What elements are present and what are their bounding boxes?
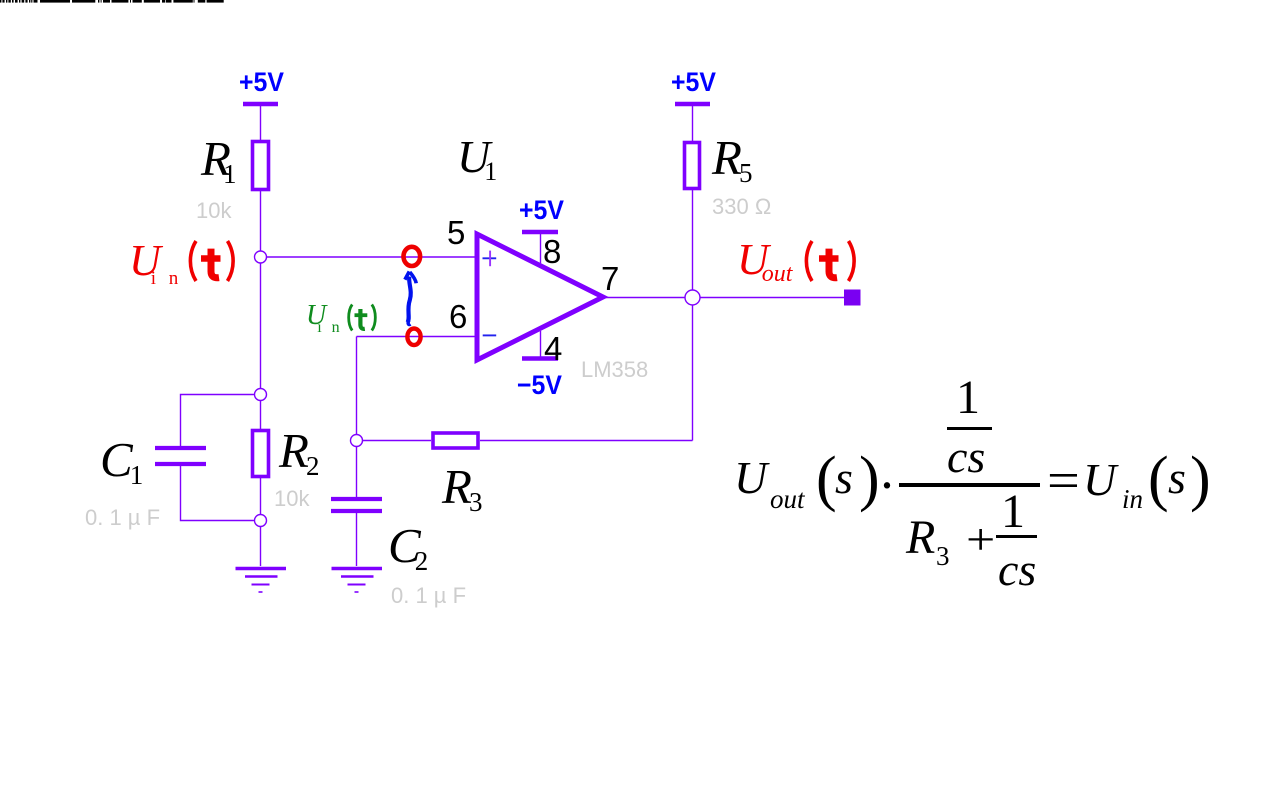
pin 5 — [447, 216, 465, 249]
value: 330 ohm (R5) — [712, 196, 771, 218]
label: R1 — [201, 134, 236, 183]
value: 0.1uF (C2) — [391, 585, 466, 607]
annotation: blue arrow between circles — [405, 272, 416, 325]
wire: pin 4 stub — [540, 331, 542, 358]
formula main fraction bar — [899, 483, 1040, 487]
resistor R3 (horizontal) — [433, 433, 478, 448]
wire: Uin node to op-amp + input — [261, 256, 478, 258]
formula equals — [1047, 456, 1080, 508]
node: feedback junction — [351, 435, 363, 447]
label: R3 — [442, 462, 482, 511]
+5V power bar at op-amp pin 8 — [522, 230, 558, 235]
resistor R5 — [685, 143, 700, 189]
+5V power bar above R5 — [675, 102, 710, 107]
output terminal square — [844, 290, 861, 306]
node: output junction — [685, 290, 700, 305]
value: LM358 — [581, 359, 648, 381]
label: Uin(t) red input — [129, 239, 182, 283]
wire: C1 branch bottom — [181, 466, 261, 521]
label: +5V above R1 — [239, 69, 284, 96]
-5V power bar at op-amp pin 4 — [522, 356, 558, 361]
wire: inverting input corner to op-amp — [357, 336, 478, 338]
label: +5V at op-amp — [519, 197, 564, 224]
formula: Uout(s) * (1/cs)/(R3+1/cs) = Uin(s) — [0, 0, 1, 1]
label: U1 — [457, 134, 497, 180]
formula numerator 1/cs — [956, 374, 980, 422]
formula term Uout(s) — [734, 455, 767, 501]
wire: op-amp output to terminal — [604, 297, 845, 299]
ground (left, below R2) — [236, 569, 287, 593]
wire: C2 bottom to ground — [356, 513, 358, 566]
wire: feedback node to R3 — [357, 440, 432, 442]
clipped header text at top — [0, 0, 1280, 8]
value: 0.1uF (C1) — [85, 507, 160, 529]
wire: C1 branch top — [181, 395, 261, 447]
wire: R1 bottom down through nodes to ground — [260, 190, 262, 566]
label: red (t) of Uout — [802, 238, 862, 286]
wire: output node down to feedback — [692, 190, 694, 441]
annotation: red circle on + input wire — [404, 247, 421, 266]
label: -5V at op-amp — [517, 372, 562, 399]
value: 10k (R2) — [274, 488, 309, 510]
label: +5V above R5 — [671, 69, 716, 96]
pin 8 — [543, 235, 561, 268]
op-amp U1 triangle — [477, 234, 603, 360]
ground (right, below C2) — [332, 569, 383, 593]
label: C2 — [388, 521, 428, 570]
wire: pin 8 stub — [540, 232, 542, 263]
pin 7 — [601, 262, 619, 295]
pin 4 — [544, 332, 562, 365]
green annotation Uin(t) — [306, 302, 343, 330]
formula term Uin(s) — [1083, 457, 1116, 503]
+5V power bar above R1 — [243, 102, 278, 107]
capacitor C2 plates — [331, 497, 382, 501]
op-amp + input mark — [483, 251, 497, 267]
wire: R3 to output column — [480, 440, 693, 442]
label: red (t) of Uin — [186, 238, 242, 286]
label: C1 — [100, 435, 143, 484]
label: R5 — [712, 133, 752, 182]
formula denominator R3 + 1/cs — [906, 514, 935, 562]
node: R2 top junction — [255, 389, 267, 401]
label: Uout(t) red output — [737, 238, 792, 282]
resistor R2 — [253, 431, 269, 477]
pin 6 — [449, 300, 467, 333]
wire: +5V bar to R5 — [692, 106, 694, 141]
wire: inverting corner down through node to C2 — [356, 337, 358, 498]
resistor R1 — [253, 142, 269, 190]
node: Uin junction — [255, 251, 267, 263]
op-amp - input mark — [483, 334, 497, 336]
wire: +5V bar to R1 — [260, 106, 262, 140]
label: R2 — [279, 426, 319, 475]
capacitor C1 plates — [155, 446, 206, 450]
annotation: red circle on - input wire — [407, 329, 420, 346]
formula dot operator — [878, 458, 896, 512]
label: green (t) of annotation — [343, 302, 381, 333]
node: R2 bottom junction — [255, 515, 267, 527]
value: 10k (R1) — [196, 200, 231, 222]
